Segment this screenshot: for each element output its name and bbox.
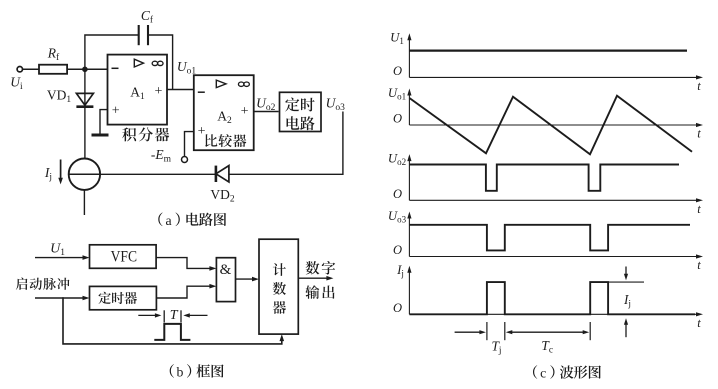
- diode VD1: [47, 88, 94, 107]
- feedback wire to counter: [63, 297, 284, 344]
- wire VFC to AND gate: [156, 258, 216, 271]
- A2 triangle symbol: [216, 80, 226, 88]
- input terminal Ui: [10, 67, 23, 92]
- svg-text:Ij: Ij: [623, 292, 631, 310]
- A2 label: [217, 108, 232, 126]
- wire Rf to A1 inverting input: [67, 68, 107, 70]
- wire VD2 to Uo3 node: [229, 112, 343, 175]
- digital output arrow: [298, 276, 333, 281]
- A2 infinity symbol: [238, 82, 249, 86]
- caption (c) boxingtu: [533, 365, 601, 380]
- svg-text:Tj: Tj: [491, 338, 501, 356]
- Tc double arrow: [506, 330, 589, 334]
- Ij amplitude arrows: [623, 267, 631, 338]
- wire start pulse input: [35, 296, 90, 301]
- op-amp A2 box: [194, 75, 254, 150]
- wire A2 plus to -Em terminal: [185, 132, 194, 157]
- svg-text:Uo2: Uo2: [388, 152, 406, 168]
- svg-text:Uo3: Uo3: [326, 96, 346, 114]
- comparator label 比较器: [205, 134, 246, 147]
- block counter 计数器: [259, 239, 298, 334]
- wire Cf to A1 output: [149, 35, 173, 90]
- caption (a) dianlutu: [158, 213, 226, 228]
- svg-text:t: t: [697, 79, 701, 93]
- svg-text:Cf: Cf: [141, 8, 154, 26]
- svg-text:c: c: [540, 366, 546, 381]
- svg-text:U1: U1: [50, 242, 65, 259]
- svg-text:Uo1: Uo1: [388, 86, 406, 102]
- Uo1 waveform axes: [388, 86, 703, 141]
- U1 waveform constant line: [409, 49, 687, 51]
- op-amp A1 box: [108, 55, 168, 125]
- label 启动脉冲: [16, 278, 70, 290]
- svg-text:O: O: [393, 187, 402, 201]
- svg-text:t: t: [697, 258, 701, 272]
- Tj Tc tick lines: [487, 322, 590, 340]
- wire A2 to timing circuit: [254, 111, 279, 113]
- node Uo2 label: [256, 96, 276, 114]
- wire U1 input: [35, 255, 90, 260]
- svg-text:t: t: [697, 202, 701, 216]
- current source Ij: [69, 159, 100, 190]
- T width arrows: [138, 308, 207, 323]
- A1 output plus: [155, 84, 163, 99]
- A1 noninverting plus: [112, 104, 120, 119]
- svg-text:A2: A2: [217, 108, 232, 126]
- svg-text:Ij: Ij: [396, 263, 404, 279]
- timer pulse waveform: [154, 324, 190, 340]
- svg-text:Uo2: Uo2: [256, 96, 276, 114]
- A2 minus input label: [198, 91, 205, 93]
- Ij waveform axes: [393, 263, 703, 330]
- diode VD2: [210, 166, 235, 205]
- svg-text:Ij: Ij: [44, 165, 52, 183]
- U1 waveform axes: [390, 31, 703, 93]
- svg-text:O: O: [393, 243, 402, 257]
- Uo3 pulse waveform: [409, 225, 690, 251]
- timing circuit box 定时电路: [280, 92, 322, 131]
- node Uo1 label: [177, 59, 197, 77]
- caption (b) kuangtu: [170, 364, 224, 379]
- Uo2 pulse waveform: [409, 165, 679, 191]
- svg-text:O: O: [393, 64, 402, 78]
- svg-text:VFC: VFC: [111, 249, 137, 266]
- resistor Rf: [39, 46, 67, 74]
- terminal -Em: [151, 147, 188, 165]
- svg-text:t: t: [697, 316, 701, 330]
- svg-text:+: +: [198, 124, 206, 139]
- svg-text:Rf: Rf: [47, 46, 60, 64]
- wire A1 output to A2: [167, 89, 194, 91]
- AND gate block: [216, 258, 235, 302]
- wire A1 plus input to ground: [100, 110, 108, 135]
- label Tc: [541, 338, 553, 356]
- svg-text:O: O: [393, 301, 402, 315]
- wire below current source: [83, 190, 85, 215]
- A2 output plus: [241, 104, 249, 119]
- svg-text:&: &: [220, 262, 232, 278]
- A1 minus input label: [112, 67, 119, 69]
- label 输出: [305, 285, 334, 299]
- wire AND to counter: [236, 277, 260, 282]
- label 数字: [306, 261, 336, 274]
- integrator label 积分器: [122, 127, 169, 141]
- wire node down through VD1: [84, 69, 86, 158]
- svg-text:Ui: Ui: [10, 74, 23, 92]
- A2 noninverting plus: [198, 124, 206, 139]
- label Tj: [491, 338, 501, 356]
- A1 triangle symbol: [134, 59, 143, 67]
- wire timer to AND gate: [156, 284, 216, 298]
- Ij level reference line: [608, 281, 644, 283]
- svg-text:+: +: [241, 104, 249, 119]
- svg-text:VD2: VD2: [210, 187, 235, 205]
- Ij pulse waveform: [409, 282, 695, 314]
- svg-text:T: T: [170, 308, 179, 323]
- block VFC: [90, 245, 157, 268]
- Uo3 waveform axes: [388, 209, 703, 272]
- svg-text:U1: U1: [390, 31, 404, 47]
- svg-text:+: +: [112, 104, 120, 119]
- ground: [92, 134, 109, 137]
- svg-text:b: b: [176, 364, 183, 379]
- svg-text:a: a: [165, 213, 171, 228]
- capacitor Cf: [139, 8, 154, 45]
- svg-text:Uo3: Uo3: [388, 209, 407, 225]
- wire input to Rf: [23, 68, 39, 70]
- svg-text:-Em: -Em: [151, 147, 172, 165]
- wire current source to VD2: [100, 173, 216, 175]
- input U1 label: [50, 242, 65, 259]
- svg-text:VD1: VD1: [47, 88, 72, 106]
- node at Rf output: [83, 67, 88, 72]
- block timer 定时器: [90, 286, 157, 309]
- node Uo3 label: [326, 96, 346, 114]
- svg-text:Tc: Tc: [541, 338, 553, 356]
- Uo2 waveform axes: [388, 152, 703, 216]
- svg-text:O: O: [393, 112, 402, 126]
- Uo1 sawtooth: [409, 96, 692, 155]
- Ij arrow: [44, 160, 63, 185]
- svg-text:t: t: [697, 127, 701, 141]
- svg-text:A1: A1: [130, 84, 145, 102]
- A1 label: [130, 84, 145, 102]
- svg-text:+: +: [155, 84, 163, 99]
- Tj arrow: [455, 330, 486, 334]
- A1 infinity symbol: [152, 61, 163, 65]
- svg-text:Uo1: Uo1: [177, 59, 197, 77]
- wire node up to Cf: [85, 35, 138, 69]
